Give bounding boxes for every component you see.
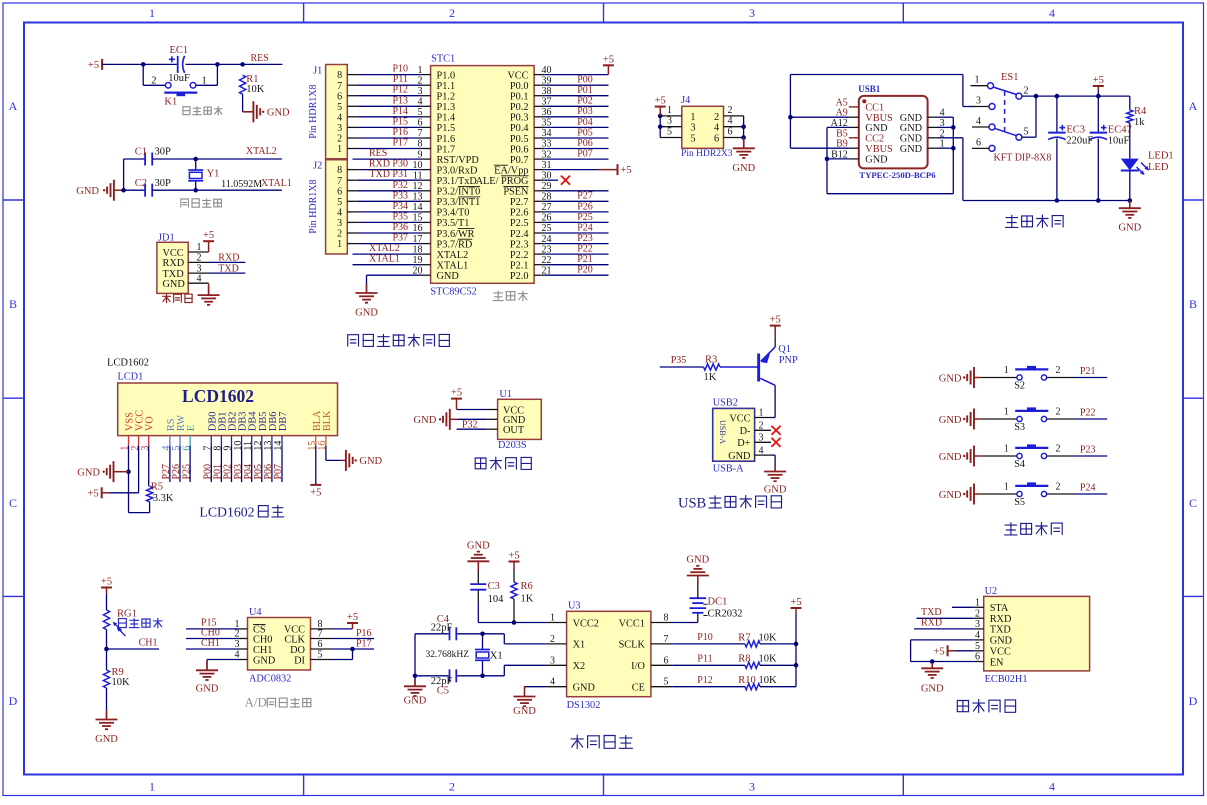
svg-text:+5: +5 [655, 96, 666, 107]
svg-text:J1: J1 [313, 65, 322, 76]
svg-text:6: 6 [664, 655, 669, 666]
svg-text:GND: GND [939, 373, 962, 384]
svg-text:EN: EN [990, 657, 1004, 668]
svg-text:P21: P21 [1080, 366, 1096, 377]
svg-text:GND: GND [939, 452, 962, 463]
svg-text:GND: GND [404, 696, 427, 707]
svg-text:P2.6: P2.6 [510, 208, 529, 219]
svg-text:P1.6: P1.6 [437, 134, 456, 145]
svg-text:LCD1602: LCD1602 [107, 358, 149, 369]
svg-text:C1: C1 [135, 147, 147, 158]
svg-text:+5: +5 [621, 165, 632, 176]
svg-text:2: 2 [714, 112, 719, 123]
svg-text:GND: GND [414, 415, 437, 426]
svg-text:R10: R10 [738, 675, 756, 686]
svg-text:P26: P26 [577, 201, 593, 212]
svg-text:XTAL1: XTAL1 [369, 254, 400, 265]
svg-text:1: 1 [337, 239, 342, 250]
svg-text:6: 6 [728, 127, 733, 138]
svg-text:U3: U3 [568, 601, 581, 612]
svg-text:P23: P23 [1080, 444, 1096, 455]
svg-text:P0.2: P0.2 [510, 102, 529, 113]
svg-text:CE: CE [632, 683, 645, 694]
svg-text:VCC: VCC [507, 70, 528, 81]
svg-text:ES1: ES1 [1001, 72, 1019, 83]
svg-text:2: 2 [1056, 482, 1061, 493]
svg-text:6: 6 [337, 186, 342, 197]
svg-text:P3.1/TxD: P3.1/TxD [437, 176, 478, 187]
svg-text:1: 1 [1004, 482, 1009, 493]
svg-text:STC89C52: STC89C52 [430, 287, 476, 298]
svg-text:P24: P24 [1080, 482, 1096, 493]
svg-text:D+: D+ [737, 438, 750, 449]
svg-text:1: 1 [667, 105, 672, 116]
svg-text:CH1: CH1 [201, 638, 220, 649]
svg-text:CH1: CH1 [253, 645, 272, 656]
svg-text:GND: GND [76, 186, 99, 197]
svg-text:Pin HDR1X8: Pin HDR1X8 [308, 85, 319, 139]
svg-text:1: 1 [149, 6, 155, 20]
svg-text:P14: P14 [392, 106, 408, 117]
svg-text:1K: 1K [521, 594, 534, 605]
svg-text:1: 1 [197, 242, 202, 253]
svg-text:GND: GND [573, 683, 596, 694]
svg-text:10uF: 10uF [168, 73, 190, 84]
svg-text:2: 2 [337, 134, 342, 145]
svg-text:GND: GND [267, 108, 290, 119]
svg-text:P05: P05 [577, 127, 593, 138]
svg-text:11.0592M: 11.0592M [221, 179, 262, 190]
svg-text:P35: P35 [392, 211, 408, 222]
svg-text:P10: P10 [392, 64, 408, 75]
svg-text:B: B [9, 297, 17, 311]
svg-text:P10: P10 [697, 632, 713, 643]
svg-text:U2: U2 [985, 586, 998, 597]
svg-text:3: 3 [976, 96, 981, 107]
svg-text:GND: GND [77, 468, 100, 479]
svg-text:C5: C5 [437, 686, 449, 697]
svg-text:P1.0: P1.0 [437, 70, 456, 81]
svg-text:GND: GND [764, 485, 787, 496]
svg-text:P1.1: P1.1 [437, 81, 456, 92]
svg-text:CLK: CLK [284, 634, 305, 645]
svg-text:GND: GND [900, 123, 923, 134]
svg-text:GND: GND [939, 415, 962, 426]
svg-text:P03: P03 [577, 106, 593, 117]
svg-text:P3.5/T1: P3.5/T1 [437, 218, 470, 229]
svg-text:220uF: 220uF [1066, 135, 1093, 146]
svg-text:GND: GND [732, 163, 755, 174]
svg-text:P07: P07 [273, 464, 284, 480]
svg-text:DO: DO [290, 645, 305, 656]
svg-text:P3.3/INT1: P3.3/INT1 [437, 197, 481, 208]
svg-text:GND: GND [728, 451, 751, 462]
svg-text:C2: C2 [135, 178, 147, 189]
svg-text:XTAL2: XTAL2 [246, 146, 277, 157]
svg-text:P11: P11 [697, 654, 712, 665]
svg-text:P07: P07 [577, 149, 593, 160]
svg-text:GND: GND [865, 155, 888, 166]
svg-text:P1.7: P1.7 [437, 144, 456, 155]
svg-text:3.3K: 3.3K [153, 493, 174, 504]
svg-text:R8: R8 [738, 654, 750, 665]
svg-text:XTAL2: XTAL2 [369, 243, 400, 254]
svg-text:10K: 10K [759, 632, 778, 643]
svg-text:GND: GND [939, 490, 962, 501]
svg-text:EC47: EC47 [1108, 124, 1132, 135]
svg-text:GND: GND [1118, 223, 1141, 234]
svg-text:A: A [1189, 99, 1198, 113]
svg-text:5: 5 [337, 102, 342, 113]
svg-text:P25: P25 [181, 464, 192, 480]
svg-text:RXD: RXD [163, 258, 185, 269]
svg-text:3: 3 [975, 619, 980, 630]
svg-text:1: 1 [337, 144, 342, 155]
svg-text:5: 5 [664, 677, 669, 688]
svg-text:3: 3 [749, 780, 755, 794]
svg-text:P13: P13 [392, 95, 408, 106]
svg-text:GND: GND [900, 134, 923, 145]
svg-text:LCD1602: LCD1602 [182, 386, 254, 406]
svg-text:2: 2 [550, 634, 555, 645]
svg-text:5: 5 [690, 134, 695, 145]
svg-text:GND: GND [467, 541, 490, 552]
svg-text:4: 4 [337, 112, 342, 123]
svg-text:RST/VPD: RST/VPD [437, 155, 480, 166]
svg-text:5: 5 [667, 127, 672, 138]
svg-text:B5: B5 [836, 128, 848, 139]
svg-text:P22: P22 [1080, 407, 1096, 418]
svg-text:DI: DI [294, 655, 305, 666]
svg-text:JD1: JD1 [158, 232, 175, 243]
svg-text:CR2032: CR2032 [708, 609, 743, 620]
svg-text:P3.6/WR: P3.6/WR [437, 229, 475, 240]
svg-text:KFT DIP-8X8: KFT DIP-8X8 [994, 152, 1052, 163]
svg-text:S2: S2 [1014, 381, 1025, 392]
svg-text:XTAL2: XTAL2 [437, 250, 469, 261]
svg-text:1: 1 [202, 75, 207, 86]
svg-text:4: 4 [975, 630, 980, 641]
svg-text:5: 5 [337, 197, 342, 208]
svg-text:D-: D- [740, 426, 751, 437]
svg-text:1: 1 [550, 613, 555, 624]
svg-text:S3: S3 [1014, 422, 1025, 433]
svg-text:P0.5: P0.5 [510, 134, 529, 145]
svg-text:VO: VO [145, 416, 156, 431]
svg-text:1: 1 [975, 75, 980, 86]
svg-text:P25: P25 [577, 212, 593, 223]
svg-text:GND: GND [513, 706, 536, 717]
svg-text:10K: 10K [246, 84, 264, 95]
svg-text:P1.2: P1.2 [437, 92, 456, 103]
svg-text:P2.4: P2.4 [510, 229, 529, 240]
svg-text:P1.4: P1.4 [437, 113, 456, 124]
svg-text:P21: P21 [577, 254, 593, 265]
svg-text:XTAL1: XTAL1 [261, 178, 292, 189]
svg-text:DB7: DB7 [278, 412, 289, 431]
svg-text:X1: X1 [573, 640, 586, 651]
svg-text:104: 104 [488, 594, 505, 605]
svg-text:RXD P30: RXD P30 [369, 159, 408, 170]
svg-text:SCLK: SCLK [619, 640, 646, 651]
svg-text:P1.3: P1.3 [437, 102, 456, 113]
svg-text:J2: J2 [313, 161, 322, 172]
svg-text:LED1: LED1 [1148, 151, 1174, 162]
svg-text:RXD: RXD [990, 614, 1012, 625]
svg-text:VCC1: VCC1 [619, 618, 645, 629]
svg-text:5: 5 [318, 650, 323, 661]
svg-text:P0.6: P0.6 [510, 144, 529, 155]
svg-text:X1: X1 [490, 650, 503, 661]
svg-text:P1.5: P1.5 [437, 123, 456, 134]
svg-text:8: 8 [337, 165, 342, 176]
svg-text:P01: P01 [577, 85, 593, 96]
svg-text:EC3: EC3 [1066, 124, 1085, 135]
svg-text:USB2: USB2 [713, 398, 738, 409]
svg-text:2: 2 [449, 6, 455, 20]
svg-text:TXD: TXD [990, 625, 1012, 636]
svg-text:LCD1: LCD1 [118, 372, 144, 383]
svg-text:P32: P32 [462, 420, 478, 431]
svg-text:USB-A: USB-A [718, 420, 727, 444]
svg-text:P17: P17 [392, 138, 408, 149]
svg-text:30P: 30P [155, 178, 172, 189]
svg-text:P3.2/INT0: P3.2/INT0 [437, 187, 481, 198]
svg-text:PNP: PNP [779, 355, 798, 366]
svg-text:I/O: I/O [631, 661, 645, 672]
svg-text:P0.1: P0.1 [510, 92, 529, 103]
svg-text:1: 1 [1004, 444, 1009, 455]
svg-text:P0.0: P0.0 [510, 81, 529, 92]
svg-text:X2: X2 [573, 661, 586, 672]
svg-text:CC2: CC2 [865, 134, 884, 145]
svg-text:Y1: Y1 [207, 168, 220, 179]
svg-text:TXD P31: TXD P31 [369, 169, 408, 180]
svg-text:GND: GND [196, 684, 219, 695]
svg-text:GND: GND [95, 734, 118, 745]
svg-text:P2.7: P2.7 [510, 197, 529, 208]
svg-text:4: 4 [728, 116, 733, 127]
svg-text:P3.4/T0: P3.4/T0 [437, 208, 470, 219]
svg-text:P34: P34 [392, 201, 408, 212]
svg-text:P35: P35 [671, 355, 687, 366]
svg-text:4: 4 [1049, 780, 1055, 794]
svg-text:+5: +5 [770, 315, 781, 326]
svg-text:4: 4 [759, 445, 764, 456]
svg-text:+5: +5 [1093, 75, 1104, 86]
svg-text:EC1: EC1 [170, 45, 189, 56]
svg-text:4: 4 [197, 273, 202, 284]
svg-text:+5: +5 [933, 646, 944, 657]
svg-text:ALE/ PROG: ALE/ PROG [476, 176, 529, 187]
svg-text:2: 2 [449, 780, 455, 794]
svg-text:2: 2 [728, 105, 733, 116]
svg-text:+5: +5 [790, 597, 801, 608]
svg-text:CH1: CH1 [139, 637, 158, 648]
svg-text:1: 1 [1004, 407, 1009, 418]
svg-text:K1: K1 [164, 97, 177, 108]
svg-text:3: 3 [550, 655, 555, 666]
svg-text:P2.3: P2.3 [510, 239, 529, 250]
svg-text:USB1: USB1 [858, 84, 881, 94]
svg-text:4: 4 [1049, 6, 1055, 20]
svg-text:P12: P12 [697, 675, 713, 686]
svg-text:3: 3 [749, 6, 755, 20]
svg-text:GND: GND [921, 684, 944, 695]
svg-text:3: 3 [337, 218, 342, 229]
svg-text:P2.2: P2.2 [510, 250, 529, 261]
svg-text:5: 5 [975, 641, 980, 652]
svg-text:Pin HDR1X8: Pin HDR1X8 [308, 180, 319, 234]
svg-text:R7: R7 [738, 632, 750, 643]
svg-text:6: 6 [318, 639, 323, 650]
svg-text:2: 2 [759, 421, 764, 432]
svg-text:32.768kHZ: 32.768kHZ [426, 650, 470, 660]
svg-text:D203S: D203S [498, 440, 527, 451]
svg-text:CH0: CH0 [253, 634, 272, 645]
svg-text:P24: P24 [577, 222, 593, 233]
svg-text:BLK: BLK [322, 410, 333, 431]
svg-text:P0.7: P0.7 [510, 155, 529, 166]
svg-text:RES: RES [251, 53, 269, 64]
svg-text:3: 3 [690, 123, 695, 134]
svg-text:ECB02H1: ECB02H1 [985, 674, 1028, 685]
svg-text:1k: 1k [1134, 117, 1145, 128]
svg-text:P32: P32 [392, 180, 408, 191]
svg-text:C: C [1189, 496, 1197, 510]
svg-text:S5: S5 [1014, 497, 1025, 508]
svg-text:10K: 10K [759, 654, 778, 665]
svg-text:7: 7 [337, 176, 342, 187]
svg-text:+5: +5 [347, 612, 358, 623]
svg-text:VCC: VCC [163, 248, 184, 259]
svg-text:S4: S4 [1014, 459, 1025, 470]
svg-text:+5: +5 [203, 230, 214, 241]
svg-text:STA: STA [990, 603, 1009, 614]
svg-text:GND: GND [990, 636, 1013, 647]
svg-text:6: 6 [976, 137, 981, 148]
svg-text:1: 1 [149, 780, 155, 794]
svg-text:GND: GND [355, 308, 378, 319]
svg-text:4: 4 [550, 677, 555, 688]
svg-text:2: 2 [197, 253, 202, 264]
svg-text:4: 4 [714, 123, 719, 134]
svg-text:P16: P16 [392, 127, 408, 138]
svg-text:3: 3 [759, 433, 764, 444]
svg-text:7: 7 [318, 629, 323, 640]
svg-text:4: 4 [976, 116, 981, 127]
svg-text:7: 7 [337, 81, 342, 92]
svg-text:CH0: CH0 [201, 628, 220, 639]
svg-text:1: 1 [975, 597, 980, 608]
svg-text:2: 2 [1056, 407, 1061, 418]
svg-text:P00: P00 [577, 75, 593, 86]
svg-text:VCC: VCC [729, 413, 750, 424]
svg-text:EA/Vpp: EA/Vpp [494, 165, 528, 176]
svg-text:RES: RES [369, 148, 387, 159]
svg-text:A/D: A/D [245, 695, 267, 710]
svg-text:Pin HDR2X3: Pin HDR2X3 [681, 149, 733, 159]
svg-text:P12: P12 [392, 85, 408, 96]
svg-text:P06: P06 [577, 138, 593, 149]
svg-text:30P: 30P [155, 147, 172, 158]
svg-text:P11: P11 [393, 74, 408, 85]
svg-text:+5: +5 [508, 551, 519, 562]
svg-text:P3.7/RD: P3.7/RD [437, 239, 473, 250]
svg-text:P3.0/RxD: P3.0/RxD [437, 165, 478, 176]
svg-text:USB: USB [678, 496, 706, 512]
svg-text:22pF: 22pF [431, 623, 453, 634]
svg-text:STC1: STC1 [431, 54, 455, 65]
svg-text:LED: LED [1148, 162, 1169, 173]
svg-text:R4: R4 [1134, 106, 1147, 117]
svg-text:GND: GND [437, 271, 460, 282]
svg-text:2: 2 [975, 608, 980, 619]
svg-text:D: D [1189, 694, 1198, 708]
svg-text:LCD1602: LCD1602 [199, 505, 254, 520]
svg-text:VBUS: VBUS [865, 144, 893, 155]
svg-text:3: 3 [667, 116, 672, 127]
svg-text:2: 2 [151, 75, 156, 86]
svg-text:R3: R3 [705, 354, 717, 365]
svg-text:TXD: TXD [921, 607, 942, 618]
svg-text:10K: 10K [112, 677, 131, 688]
svg-text:GND: GND [865, 123, 888, 134]
svg-text:P2.5: P2.5 [510, 218, 529, 229]
svg-text:P36: P36 [392, 222, 408, 233]
svg-text:10uF: 10uF [1108, 135, 1130, 146]
svg-text:U1: U1 [499, 389, 512, 400]
svg-text:VCC2: VCC2 [573, 618, 599, 629]
svg-text:OUT: OUT [503, 425, 525, 436]
svg-text:P15: P15 [392, 116, 408, 127]
svg-text:+5: +5 [88, 60, 99, 71]
svg-text:P23: P23 [577, 233, 593, 244]
svg-text:P0.4: P0.4 [510, 123, 529, 134]
svg-text:P2.0: P2.0 [510, 271, 529, 282]
svg-text:7: 7 [664, 634, 669, 645]
svg-text:A: A [9, 99, 18, 113]
svg-text:DC1: DC1 [708, 596, 728, 607]
svg-text:6: 6 [337, 91, 342, 102]
svg-text:C: C [9, 496, 17, 510]
svg-text:2: 2 [1056, 444, 1061, 455]
svg-text:U4: U4 [249, 607, 262, 618]
svg-text:GND: GND [253, 655, 276, 666]
svg-text:2: 2 [1056, 365, 1061, 376]
svg-text:PSEN: PSEN [503, 187, 529, 198]
svg-text:J4: J4 [681, 95, 690, 106]
svg-text:R6: R6 [521, 581, 533, 592]
svg-text:ADC0832: ADC0832 [249, 674, 291, 685]
svg-text:P2.1: P2.1 [510, 261, 529, 272]
svg-text:+5: +5 [451, 388, 462, 399]
svg-text:P27: P27 [577, 191, 593, 202]
svg-text:P37: P37 [392, 233, 408, 244]
svg-text:6: 6 [975, 652, 980, 663]
svg-text:P17: P17 [356, 638, 372, 649]
svg-text:+5: +5 [101, 577, 112, 588]
svg-text:GND: GND [900, 144, 923, 155]
svg-text:10K: 10K [759, 675, 778, 686]
svg-text:3: 3 [337, 123, 342, 134]
svg-text:4: 4 [337, 208, 342, 219]
svg-text:1: 1 [1004, 365, 1009, 376]
svg-text:GND: GND [163, 279, 186, 290]
svg-text:P0.3: P0.3 [510, 113, 529, 124]
svg-text:1: 1 [759, 408, 764, 419]
svg-text:2: 2 [337, 229, 342, 240]
